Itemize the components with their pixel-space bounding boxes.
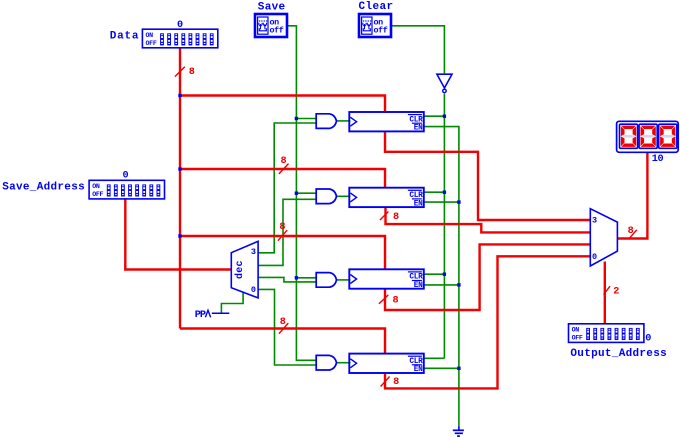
svg-text:8: 8 bbox=[393, 377, 399, 388]
svg-text:0: 0 bbox=[645, 334, 651, 345]
svg-text:OFF: OFF bbox=[572, 335, 583, 342]
node junction Data bus 2 bbox=[178, 167, 181, 170]
wire Save signal vertical from Save switch to AND gates bbox=[288, 26, 316, 361]
node junction Data bus 3 bbox=[178, 234, 181, 237]
svg-text:2: 2 bbox=[613, 287, 619, 298]
and-gate G3 bbox=[316, 273, 336, 288]
svg-text:10: 10 bbox=[652, 154, 664, 165]
wire Data bus 3 to register U3 input bbox=[180, 236, 385, 270]
node junction EN/U4 bbox=[457, 367, 460, 370]
toggle switch Clear bbox=[359, 14, 391, 37]
node junction CLR/U2 bbox=[443, 191, 446, 194]
node junction EN/U3 bbox=[457, 283, 460, 286]
svg-text:8: 8 bbox=[393, 212, 399, 223]
wire register U2 CLR to CLR line bbox=[424, 191, 445, 193]
bus width slash 8 on mux output bbox=[630, 230, 637, 238]
svg-text:OFF: OFF bbox=[92, 191, 103, 198]
wire EN line from U1 EN down to ground bbox=[424, 127, 459, 427]
register U2 bbox=[349, 188, 424, 207]
node junction EN/U2 bbox=[457, 200, 460, 203]
svg-text:8: 8 bbox=[280, 317, 286, 328]
wire Data bus 4 to register U4 input bbox=[180, 329, 385, 355]
and-gate G1 bbox=[316, 114, 336, 129]
svg-text:Save: Save bbox=[258, 1, 286, 13]
bus width slash 8 on Data bus 3 bbox=[278, 230, 287, 241]
bus width slash 8 on U4 output bbox=[381, 377, 390, 387]
svg-text:8: 8 bbox=[279, 222, 285, 233]
wire register U2 EN to EN line bbox=[424, 201, 459, 203]
svg-text:8: 8 bbox=[281, 156, 287, 167]
svg-text:EN: EN bbox=[414, 125, 423, 133]
svg-text:OFF: OFF bbox=[146, 40, 157, 47]
7-segment display DISP1 bbox=[617, 121, 679, 152]
wire decoder output 0 to AND4 bottom input bbox=[258, 289, 316, 365]
wire Save to AND1 top input bbox=[296, 118, 316, 120]
wire Save to AND3 top input bbox=[296, 277, 316, 279]
wire decoder output 1 to AND3 bottom input bbox=[258, 277, 316, 282]
svg-text:ON: ON bbox=[146, 32, 154, 39]
bus width slash 8 on Data bus 4 bbox=[279, 323, 288, 334]
node junction Data bus 1 bbox=[178, 94, 181, 97]
toggle switch Save bbox=[255, 14, 287, 37]
svg-text:ON: ON bbox=[572, 327, 580, 334]
wire pulser stub bbox=[212, 312, 230, 314]
svg-text:off: off bbox=[374, 25, 388, 35]
svg-text:EN: EN bbox=[414, 200, 423, 208]
wire register U4 CLR to CLR line bbox=[424, 357, 445, 359]
inverter U5 on Clear line bbox=[437, 74, 452, 88]
wire register U3 CLR to CLR line bbox=[424, 273, 445, 275]
svg-text:PP: PP bbox=[195, 310, 206, 321]
wire pulser PP to decoder clock input bbox=[221, 292, 243, 314]
bus width slash 2 on mux select bbox=[604, 286, 610, 294]
node junction Save/AND1 bbox=[295, 117, 298, 120]
wire decoder output 2 to AND2 bottom input bbox=[258, 199, 316, 265]
input switch Output_Address DIP bbox=[569, 324, 644, 343]
node junction CLR/U3 bbox=[443, 273, 446, 276]
wire register U1 output to mux input 3 bbox=[385, 131, 590, 221]
svg-text:Output_Address: Output_Address bbox=[570, 348, 667, 360]
node junction CLR/U1 bbox=[443, 115, 446, 118]
bus width slash 8 on U3 output bbox=[379, 295, 388, 304]
svg-text:3: 3 bbox=[592, 215, 597, 225]
wire Data bus vertical drop bbox=[179, 48, 181, 329]
wire decoder output 3 to AND1 bottom input bbox=[258, 123, 316, 253]
bus width slash 8 on Data bus 2 bbox=[279, 164, 289, 174]
wire register U4 EN to EN line bbox=[424, 367, 459, 369]
wire Save to AND2 top input bbox=[296, 192, 316, 194]
svg-text:off: off bbox=[270, 25, 284, 35]
wire AND3 output to U3 clock bbox=[336, 279, 350, 281]
wire Data bus 2 to register U2 input bbox=[180, 169, 385, 189]
wire mux select input from Output_Address bbox=[604, 262, 606, 324]
input switch Save_Address DIP bbox=[89, 180, 164, 199]
svg-text:ON: ON bbox=[92, 183, 100, 190]
svg-text:8: 8 bbox=[628, 226, 634, 237]
wire Clear switch to inverter bbox=[392, 26, 444, 73]
bus width slash 8 on U2 output bbox=[380, 212, 388, 221]
wire register U3 EN to EN line bbox=[424, 284, 459, 286]
wire register U3 output to mux input 1 bbox=[385, 244, 590, 310]
and-gate G4 bbox=[316, 355, 336, 370]
node junction Save/AND2 bbox=[295, 192, 298, 195]
wire AND1 output to U1 clock bbox=[336, 120, 350, 122]
multiplexer MUX1 bbox=[590, 209, 617, 266]
wire Save_Address bus to decoder input bbox=[125, 199, 231, 270]
node junction Save/AND3 bbox=[295, 276, 298, 279]
svg-text:Save_Address: Save_Address bbox=[2, 181, 85, 193]
svg-text:3: 3 bbox=[251, 247, 256, 257]
svg-text:Clear: Clear bbox=[359, 1, 394, 13]
svg-text:0: 0 bbox=[592, 252, 597, 262]
svg-text:8: 8 bbox=[189, 67, 195, 78]
svg-text:0: 0 bbox=[251, 285, 256, 295]
wire AND4 output to U4 clock bbox=[336, 362, 350, 364]
wire register U1 CLR to CLR line bbox=[424, 115, 445, 117]
ground symbol bbox=[458, 426, 460, 430]
wire inverter output CLR line vertical bbox=[443, 94, 445, 359]
svg-text:EN: EN bbox=[414, 282, 423, 290]
decoder dec bbox=[231, 241, 258, 298]
svg-text:8: 8 bbox=[393, 295, 399, 306]
input switch Data DIP bbox=[142, 29, 217, 48]
wire AND2 output to U2 clock bbox=[336, 195, 350, 197]
wire mux output to 7-segment display bbox=[617, 152, 647, 239]
svg-text:Data: Data bbox=[110, 31, 140, 43]
wire register U4 output to mux input 0 bbox=[385, 256, 590, 388]
svg-text:EN: EN bbox=[414, 366, 423, 374]
bus width slash 8 on Data drop bbox=[175, 67, 185, 77]
svg-text:0: 0 bbox=[177, 20, 183, 31]
wire register U2 output to mux input 2 bbox=[386, 207, 591, 233]
wire Data bus 1 to register U1 input bbox=[180, 96, 385, 114]
svg-text:0: 0 bbox=[123, 170, 129, 181]
svg-text:dec: dec bbox=[234, 260, 246, 279]
register U4 bbox=[349, 354, 424, 373]
register U3 bbox=[349, 269, 424, 288]
and-gate G2 bbox=[316, 189, 336, 204]
register U1 bbox=[349, 112, 424, 131]
